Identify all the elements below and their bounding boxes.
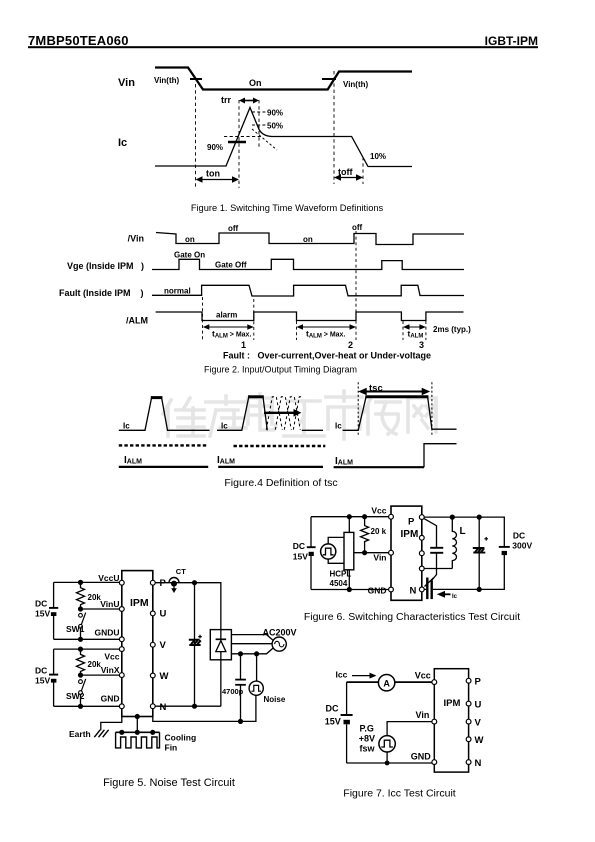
svg-text:L: L xyxy=(460,526,466,537)
wire earth branch xyxy=(101,717,122,731)
wire opto top to Vcc rail xyxy=(348,517,350,533)
svg-text:On: On xyxy=(249,78,262,88)
svg-text:ton: ton xyxy=(206,169,220,179)
header rule xyxy=(28,46,538,48)
pin Vcc terminal fig6 xyxy=(389,514,394,519)
capacitor C1 snubber xyxy=(430,548,443,553)
wire GND rail fig7 xyxy=(347,752,435,763)
wire dotted tail diagonal xyxy=(252,129,277,150)
pin V terminal fig6 xyxy=(419,551,424,556)
svg-text:Vcc: Vcc xyxy=(104,652,119,662)
svg-text:P.G: P.G xyxy=(360,724,374,734)
svg-text:Ic: Ic xyxy=(452,594,458,600)
wire dashed marker 2 long xyxy=(355,231,357,340)
battery B1 label xyxy=(293,541,308,562)
junction dot opto bottom xyxy=(347,587,352,592)
wire dashed marker at turn-off xyxy=(333,71,335,184)
svg-text:AC200V: AC200V xyxy=(263,628,297,638)
pin GND terminal fig7 xyxy=(432,760,437,765)
svg-text:Vin(th): Vin(th) xyxy=(343,80,369,89)
svg-text:normal: normal xyxy=(164,287,191,296)
pin V terminal fig5 xyxy=(150,642,155,647)
svg-text:90%: 90% xyxy=(267,109,283,118)
decorative watermark (not labeled further) xyxy=(163,391,436,439)
junction dot R1 top xyxy=(78,580,83,585)
junction dot PG bottom xyxy=(385,761,390,766)
pin Vcc terminal fig7 xyxy=(432,680,437,685)
shunt slash mark xyxy=(425,578,434,587)
wire dashed marker at Ic 90% xyxy=(238,100,240,188)
meter A ammeter xyxy=(378,675,394,691)
battery B2 DC300V fig6 xyxy=(499,547,510,555)
svg-text:VccU: VccU xyxy=(98,573,119,583)
wire Ic pulse A xyxy=(119,398,210,431)
svg-text:tALM: tALM xyxy=(408,329,424,340)
battery B2 label fig5 xyxy=(35,665,50,685)
wire AC line bottom xyxy=(231,648,273,654)
pin Vcc terminal fig5 xyxy=(119,647,124,652)
pin GND terminal fig5 xyxy=(119,704,124,709)
wire dashed tick 3a xyxy=(402,321,404,340)
svg-text:Fin: Fin xyxy=(165,743,178,753)
junction dot fin right xyxy=(150,730,155,735)
svg-text:N: N xyxy=(160,702,167,713)
resistor R1 20k fig5 xyxy=(77,582,85,609)
resistor R2 20k fig5 xyxy=(77,649,85,675)
cooling fin heatsink xyxy=(116,732,160,748)
generator PG label xyxy=(359,724,376,754)
wire AC line top xyxy=(231,635,273,641)
node 90% peak dash xyxy=(252,111,266,113)
junction dot resistor top xyxy=(362,514,367,519)
svg-text:Figure 2. Input/Output Timing: Figure 2. Input/Output Timing Diagram xyxy=(204,365,357,375)
pin N terminal fig5 xyxy=(150,704,155,709)
svg-text:V: V xyxy=(475,718,482,729)
svg-text:Figure 7. Icc Test Circuit: Figure 7. Icc Test Circuit xyxy=(343,788,456,800)
wire Ic pulse A thick top xyxy=(151,396,163,399)
wire heatsink stem xyxy=(136,717,138,733)
svg-text:4700p: 4700p xyxy=(222,687,244,696)
op-amp U4 IPM body fig7 xyxy=(434,669,468,772)
pin W terminal fig5 xyxy=(150,673,155,678)
svg-text:DC: DC xyxy=(35,599,47,609)
svg-text:off: off xyxy=(352,223,363,232)
wire dashed marker trr end xyxy=(258,100,260,148)
node tsc arrow xyxy=(358,388,430,396)
svg-text:HCPL: HCPL xyxy=(330,570,352,579)
wire Ic pulse B xyxy=(217,397,267,431)
svg-text:CT: CT xyxy=(176,567,186,576)
svg-text:Ic: Ic xyxy=(118,137,127,149)
svg-text:Vcc: Vcc xyxy=(415,671,431,681)
svg-text:Vin: Vin xyxy=(373,553,386,563)
wire Vge waveform xyxy=(152,259,464,269)
wire Ic waveform xyxy=(155,108,412,167)
wire dotted threshold B xyxy=(234,445,326,447)
svg-text:50%: 50% xyxy=(267,122,283,131)
pin U terminal fig6 xyxy=(419,535,424,540)
junction dot 4700p bottom xyxy=(238,719,243,724)
svg-text:IALM: IALM xyxy=(217,455,235,466)
svg-text:1: 1 xyxy=(241,340,246,350)
wire VccU rail xyxy=(54,582,122,639)
wire cap bottom xyxy=(436,553,438,569)
svg-text:Earth: Earth xyxy=(69,729,91,739)
svg-text:U: U xyxy=(475,700,482,711)
svg-text:Ic: Ic xyxy=(221,422,228,431)
junction dot VinU xyxy=(78,606,83,611)
wire P rail fig5 xyxy=(155,583,221,630)
battery B1 label fig5 xyxy=(35,599,50,619)
inductor L1 fig6 xyxy=(452,517,456,568)
cooling fin label xyxy=(165,733,197,753)
wire opto out to Vin xyxy=(354,552,391,554)
svg-text:P: P xyxy=(160,578,167,589)
node tALM arrow 1 xyxy=(203,324,254,330)
svg-text:GND: GND xyxy=(101,694,120,704)
op-amp U3 IPM body fig5 xyxy=(122,571,153,717)
junction dot L top xyxy=(450,515,455,520)
wire Ic pulse B thick top xyxy=(248,395,264,398)
svg-text:GND: GND xyxy=(411,752,432,762)
node toff arrow xyxy=(334,174,363,180)
wire IALM level C with step xyxy=(334,444,457,468)
generator PG pulse source xyxy=(379,736,395,752)
node Vin(th) falling tick xyxy=(190,78,202,80)
svg-text:Fault : Over-current,Over-he: Fault : Over-current,Over-heat or Under-… xyxy=(223,351,431,361)
wire dashed marker at turn-on xyxy=(195,84,197,188)
svg-text:Noise: Noise xyxy=(264,695,286,704)
pin Vin terminal fig6 xyxy=(389,550,394,555)
svg-text:DC: DC xyxy=(35,665,47,675)
svg-text:Gate On: Gate On xyxy=(174,251,205,260)
wire dashed tsc end xyxy=(431,382,433,436)
battery B1 DC15V fig5 xyxy=(49,608,58,616)
pin W terminal fig6 xyxy=(419,566,424,571)
battery B3 DC15V fig7 xyxy=(341,682,353,763)
pin U terminal fig7 xyxy=(466,701,471,706)
wire bottom return fig5 xyxy=(153,695,256,721)
svg-text:IALM: IALM xyxy=(124,455,142,466)
pin N terminal fig7 xyxy=(466,760,471,765)
wire Vin waveform xyxy=(155,68,412,90)
wire dashed tick 3b xyxy=(425,321,427,340)
node trr arrow xyxy=(239,98,259,104)
wire dashed tick 2a xyxy=(296,321,298,340)
svg-text:GND: GND xyxy=(368,586,387,596)
svg-text:Ic: Ic xyxy=(123,422,130,431)
transformer CT symbol xyxy=(169,578,179,594)
svg-text:15V: 15V xyxy=(35,609,50,619)
svg-text:15V: 15V xyxy=(293,552,308,562)
node tALM arrow 3 xyxy=(403,324,426,330)
svg-text:VinU: VinU xyxy=(100,599,119,609)
svg-text:Vcc: Vcc xyxy=(371,506,386,516)
svg-text:Cooling: Cooling xyxy=(165,733,197,743)
svg-text:Fault (Inside IPM ): Fault (Inside IPM ) xyxy=(59,288,144,298)
junction dot opto top xyxy=(347,514,352,519)
pin U terminal fig5 xyxy=(150,611,155,616)
junction dot noise top xyxy=(254,651,259,656)
svg-text:DC: DC xyxy=(513,531,525,541)
battery B3 label xyxy=(325,704,341,727)
wire bridge to N rail xyxy=(155,660,221,706)
wire P to snubber cap diagonal xyxy=(424,519,436,548)
wire AC line mid xyxy=(231,643,272,645)
wire GND rail block2 xyxy=(54,705,122,707)
svg-text:10%: 10% xyxy=(370,152,386,161)
battery B2 DC15V fig5 xyxy=(49,675,58,683)
junction dot SW1 bottom xyxy=(78,637,83,642)
wire N bottom rail fig6 xyxy=(424,555,504,590)
diode bridge D1 body xyxy=(210,630,231,660)
wire dashed tick 1b xyxy=(253,299,255,340)
svg-text:IPM: IPM xyxy=(401,529,419,540)
wire pulse gen to opto xyxy=(328,537,344,563)
node 50% dash xyxy=(252,124,266,126)
wire dashed marker at Ic 10% xyxy=(362,157,364,184)
node Icc arrow xyxy=(352,673,377,679)
junction dot varistor top xyxy=(477,515,482,520)
pulse generator fig6 xyxy=(321,544,336,559)
wire dashed repeat pulses B xyxy=(266,397,302,430)
junction dot R2 top xyxy=(78,647,83,652)
svg-text:3: 3 xyxy=(419,340,424,350)
svg-text:DC: DC xyxy=(293,541,305,551)
svg-text:GNDU: GNDU xyxy=(94,628,119,638)
node ton arrow xyxy=(196,176,240,182)
battery B2 label xyxy=(512,531,532,551)
junction dot varistor bottom fig5 xyxy=(192,704,197,709)
wire IALM level A xyxy=(119,466,208,468)
wire Vcc top fig7 xyxy=(347,681,435,683)
switch SW1 xyxy=(79,613,86,640)
pin V terminal fig7 xyxy=(466,719,471,724)
svg-text:90%: 90% xyxy=(207,143,223,152)
svg-text:300V: 300V xyxy=(512,541,532,551)
node tALM arrow 2 xyxy=(297,324,357,330)
svg-text:IALM: IALM xyxy=(335,456,353,467)
junction dot heatsink stem top xyxy=(135,714,140,719)
wire dotted threshold A xyxy=(119,444,208,446)
svg-text:V: V xyxy=(160,640,167,651)
pin W terminal fig7 xyxy=(466,737,471,742)
wire VinX xyxy=(81,674,122,676)
svg-text:alarm: alarm xyxy=(216,311,237,320)
wire join down to shunt xyxy=(431,569,437,582)
wire /Vin waveform xyxy=(156,233,464,245)
node Vin(th) rising tick xyxy=(322,78,336,80)
generator AC200V source xyxy=(272,637,286,651)
svg-text:20 k: 20 k xyxy=(371,527,387,536)
junction dot fin mid xyxy=(135,730,140,735)
junction dot varistor bottom xyxy=(477,587,482,592)
svg-text:Figure 5. Noise Test Circuit: Figure 5. Noise Test Circuit xyxy=(103,777,235,789)
wire dashed tsc start xyxy=(357,382,359,436)
svg-text:7MBP50TEA060: 7MBP50TEA060 xyxy=(28,33,129,48)
junction dot VinX xyxy=(78,673,83,678)
pin GND terminal fig6 xyxy=(389,587,394,592)
svg-text:Ic: Ic xyxy=(335,422,342,431)
pin GNDU terminal xyxy=(119,637,124,642)
svg-text:Figure 6. Switching Characteri: Figure 6. Switching Characteristics Test… xyxy=(304,611,520,623)
svg-text:IPM: IPM xyxy=(444,698,461,709)
svg-text:+8V: +8V xyxy=(359,734,375,744)
wire Ic baseline B right xyxy=(302,429,323,431)
svg-text:on: on xyxy=(303,235,313,244)
wire dashed tick 1a xyxy=(202,297,204,340)
generator noise source xyxy=(249,654,263,696)
wire Ic pulse C thick top xyxy=(365,395,428,398)
junction dot SW2 bottom xyxy=(78,704,83,709)
svg-text:toff: toff xyxy=(338,167,353,177)
svg-text:VinX: VinX xyxy=(101,665,120,675)
wire P rail fig6 xyxy=(424,517,504,547)
svg-text:Icc: Icc xyxy=(336,670,348,680)
svg-text:A: A xyxy=(383,678,390,688)
junction dot varistor top fig5 xyxy=(192,580,197,585)
svg-text:Figure.4 Definition of tsc: Figure.4 Definition of tsc xyxy=(224,477,337,489)
svg-text:4504: 4504 xyxy=(330,579,348,588)
svg-text:SW1: SW1 xyxy=(66,624,85,634)
svg-text:tALM > Max.: tALM > Max. xyxy=(212,329,251,340)
svg-text:Gate Off: Gate Off xyxy=(215,261,247,270)
shunt resistor bars fig6 xyxy=(427,578,431,600)
svg-text:Vin(th): Vin(th) xyxy=(154,76,180,85)
wire Ic pulse C xyxy=(343,397,457,431)
wire Vcc rail block2 xyxy=(54,649,122,706)
svg-text:SW2: SW2 xyxy=(66,691,85,701)
varistor ZD1 branch fig6 xyxy=(473,517,488,589)
svg-text:Vin: Vin xyxy=(416,710,430,720)
wire W-node join xyxy=(424,568,452,570)
junction dot 4700p top xyxy=(238,651,243,656)
pin P terminal fig5 xyxy=(150,580,155,585)
svg-text:/Vin: /Vin xyxy=(128,234,144,244)
node Ic arrow fig6 xyxy=(437,591,458,600)
svg-text:N: N xyxy=(475,758,482,769)
wire /ALM waveform xyxy=(156,312,464,321)
opto label HCPL4504 xyxy=(330,570,352,589)
svg-text:on: on xyxy=(185,235,195,244)
svg-text:N: N xyxy=(410,586,417,597)
wire opto bottom to GND rail xyxy=(348,570,350,590)
pin P terminal fig6 xyxy=(419,515,424,520)
opto-coupler U1 HCPL4504 body xyxy=(344,532,354,569)
svg-text:DC: DC xyxy=(326,704,339,714)
svg-text:15V: 15V xyxy=(325,717,341,727)
ground earth symbol xyxy=(94,730,108,737)
wire dashed settle level xyxy=(224,136,263,138)
svg-text:/ALM: /ALM xyxy=(126,316,148,326)
pin P terminal fig7 xyxy=(466,678,471,683)
svg-text:tALM > Max.: tALM > Max. xyxy=(306,329,345,340)
wire Vin fig7 xyxy=(387,722,434,736)
wire VinU xyxy=(81,608,122,610)
svg-text:2: 2 xyxy=(348,340,353,350)
pin N terminal fig6 xyxy=(419,587,424,592)
svg-text:IGBT-IPM: IGBT-IPM xyxy=(485,34,538,48)
svg-text:W: W xyxy=(475,735,484,746)
op-amp U2 IPM body fig6 xyxy=(391,506,422,600)
svg-text:15V: 15V xyxy=(35,676,50,686)
svg-text:Vin: Vin xyxy=(118,77,135,89)
svg-text:20k: 20k xyxy=(88,660,102,669)
pin Vin terminal fig7 xyxy=(432,719,437,724)
pin VinU terminal xyxy=(119,607,124,612)
svg-text:P: P xyxy=(408,517,415,528)
svg-text:U: U xyxy=(160,609,167,620)
junction dot fin left xyxy=(119,730,124,735)
svg-text:Figure 1. Switching Time Wavef: Figure 1. Switching Time Waveform Defini… xyxy=(191,203,384,213)
pin VinX terminal xyxy=(119,673,124,678)
resistor R1 20k fig6 xyxy=(361,517,369,553)
junction dot Vin xyxy=(362,550,367,555)
svg-text:trr: trr xyxy=(221,95,231,105)
varistor ZD2 branch fig5 xyxy=(189,583,202,707)
switch SW2 xyxy=(79,679,86,706)
capacitor C2 4700p branch xyxy=(235,654,246,722)
svg-text:P: P xyxy=(475,677,482,688)
node repeat arrow B xyxy=(264,409,302,417)
wire IALM level B xyxy=(218,466,323,468)
battery B1 DC15V fig6 xyxy=(307,547,316,556)
svg-text:2ms (typ.): 2ms (typ.) xyxy=(433,325,471,334)
svg-text:fsw: fsw xyxy=(360,744,376,754)
wire GNDU rail xyxy=(54,638,122,640)
pin VccU terminal xyxy=(119,580,124,585)
wire Vcc top rail fig6 xyxy=(311,517,391,590)
svg-text:off: off xyxy=(228,224,239,233)
wire GND bottom rail fig6 xyxy=(311,589,391,591)
diode D1 symbol xyxy=(216,630,227,660)
node 90% rising tick xyxy=(228,141,246,143)
svg-text:Vge (Inside IPM ): Vge (Inside IPM ) xyxy=(67,261,144,271)
svg-text:W: W xyxy=(160,671,169,682)
wire Fault waveform xyxy=(152,285,464,296)
svg-text:IPM: IPM xyxy=(130,597,149,609)
